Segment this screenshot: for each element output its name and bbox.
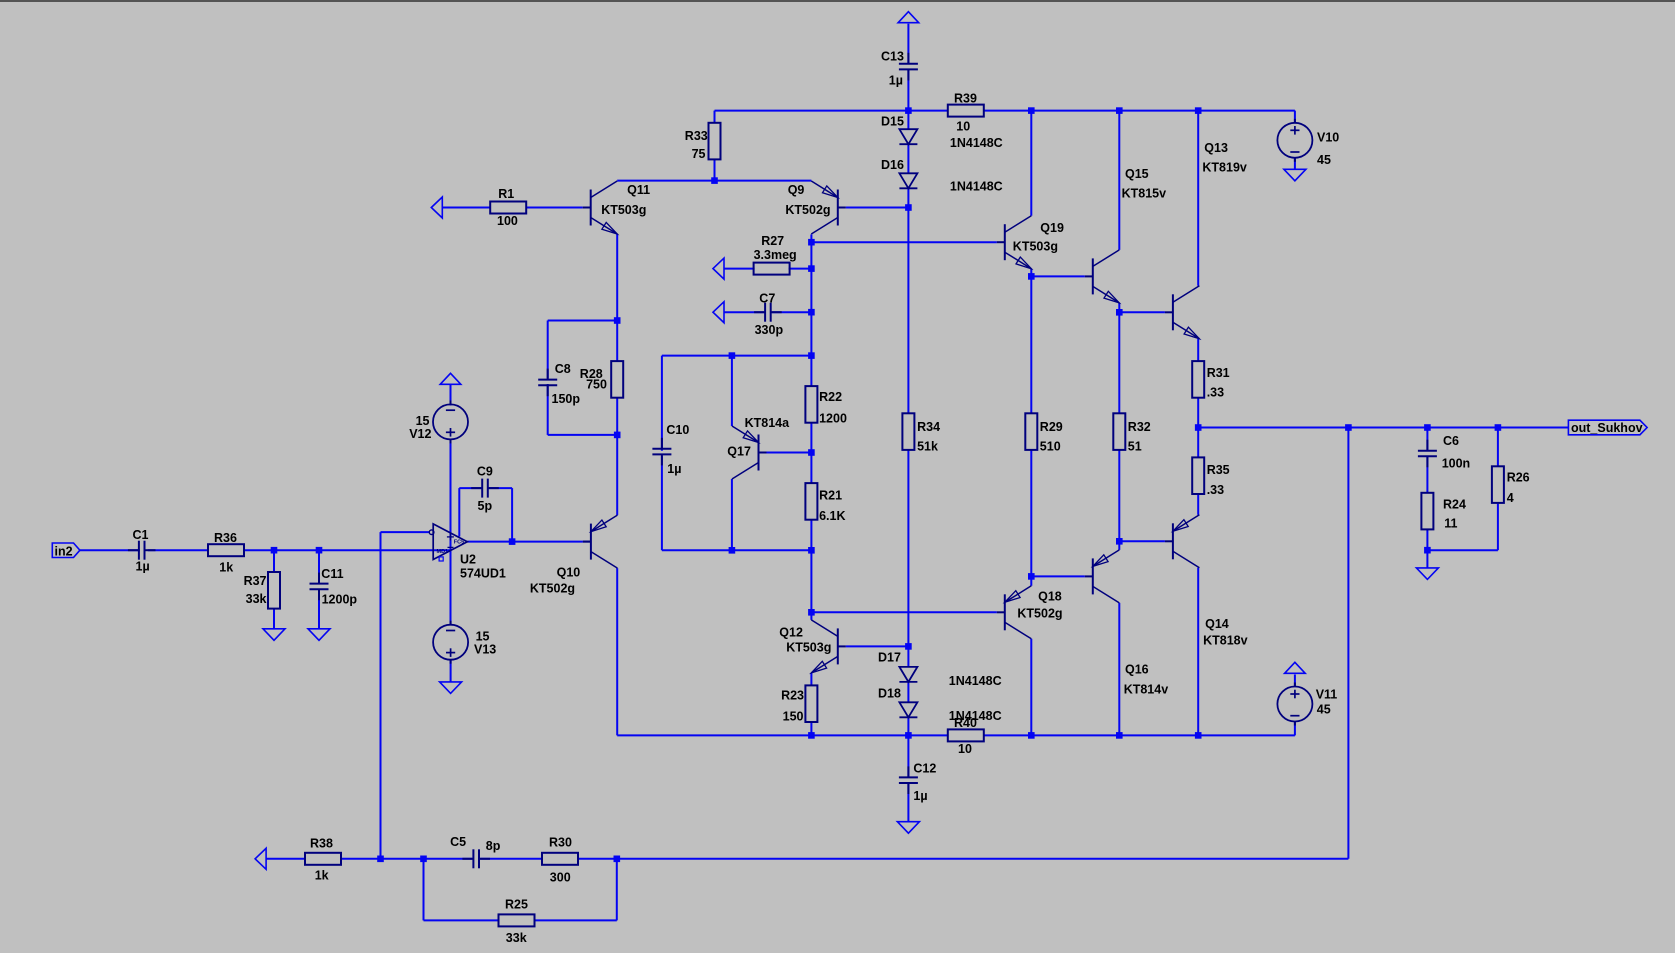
- svg-text:Q11: Q11: [627, 183, 650, 197]
- svg-text:1k: 1k: [315, 868, 329, 882]
- svg-text:3.3meg: 3.3meg: [754, 248, 797, 262]
- svg-text:KT819v: KT819v: [1202, 160, 1247, 174]
- svg-text:Q13: Q13: [1204, 141, 1228, 155]
- svg-text:33k: 33k: [246, 592, 267, 606]
- svg-text:1k: 1k: [219, 561, 233, 575]
- svg-text:R29: R29: [1040, 420, 1063, 434]
- svg-text:R30: R30: [549, 836, 572, 850]
- svg-text:R23: R23: [781, 689, 804, 703]
- svg-text:R1: R1: [498, 187, 514, 201]
- svg-text:510: 510: [1040, 440, 1061, 454]
- svg-text:KT502g: KT502g: [785, 203, 830, 217]
- svg-text:R25: R25: [505, 898, 528, 912]
- svg-text:150p: 150p: [552, 392, 581, 406]
- svg-text:C9: C9: [477, 464, 493, 478]
- svg-text:C10: C10: [666, 423, 689, 437]
- svg-text:5p: 5p: [478, 499, 493, 513]
- svg-text:Q10: Q10: [557, 565, 581, 579]
- svg-text:45: 45: [1317, 153, 1331, 167]
- svg-text:R21: R21: [819, 488, 842, 502]
- svg-text:KT818v: KT818v: [1203, 634, 1248, 648]
- svg-text:V10: V10: [1317, 131, 1339, 145]
- svg-text:R32: R32: [1128, 420, 1151, 434]
- svg-text:R35: R35: [1207, 463, 1230, 477]
- svg-text:Q19: Q19: [1040, 221, 1064, 235]
- svg-text:R24: R24: [1443, 498, 1466, 512]
- svg-text:D16: D16: [881, 158, 904, 172]
- svg-text:KT502g: KT502g: [1017, 606, 1062, 620]
- svg-text:R39: R39: [954, 92, 977, 106]
- svg-text:8p: 8p: [486, 839, 501, 853]
- svg-text:750: 750: [586, 378, 607, 392]
- svg-text:out_Sukhov: out_Sukhov: [1571, 421, 1643, 435]
- svg-text:10: 10: [956, 119, 970, 133]
- svg-text:150: 150: [783, 710, 804, 724]
- svg-text:51k: 51k: [917, 440, 938, 454]
- svg-text:300: 300: [550, 871, 571, 885]
- svg-text:Q16: Q16: [1125, 663, 1149, 677]
- svg-text:in2: in2: [55, 544, 73, 558]
- svg-text:330p: 330p: [755, 323, 784, 337]
- svg-text:1µ: 1µ: [667, 462, 681, 476]
- svg-text:R33: R33: [685, 129, 708, 143]
- svg-text:.33: .33: [1207, 483, 1224, 497]
- svg-text:R40: R40: [954, 716, 977, 730]
- svg-text:75: 75: [692, 147, 706, 161]
- svg-text:KT814a: KT814a: [745, 416, 791, 430]
- svg-text:Q18: Q18: [1038, 590, 1062, 604]
- svg-text:1200: 1200: [819, 412, 847, 426]
- svg-text:100: 100: [497, 214, 518, 228]
- svg-text:45: 45: [1317, 702, 1331, 716]
- svg-text:R31: R31: [1207, 366, 1230, 380]
- svg-text:1N4148C: 1N4148C: [949, 674, 1002, 688]
- svg-text:51: 51: [1128, 440, 1142, 454]
- svg-text:C7: C7: [759, 291, 775, 305]
- svg-text:KT815v: KT815v: [1122, 187, 1167, 201]
- svg-text:R27: R27: [761, 234, 784, 248]
- svg-text:MD1: MD1: [437, 549, 449, 555]
- svg-text:15: 15: [476, 629, 490, 643]
- svg-text:11: 11: [1444, 516, 1457, 530]
- svg-text:KT814v: KT814v: [1124, 683, 1169, 697]
- svg-text:R26: R26: [1507, 471, 1530, 485]
- svg-text:C11: C11: [321, 567, 343, 581]
- svg-text:R22: R22: [819, 390, 842, 404]
- svg-text:KT503g: KT503g: [601, 203, 646, 217]
- svg-text:C5: C5: [450, 835, 466, 849]
- svg-text:R38: R38: [310, 836, 333, 850]
- svg-text:1N4148C: 1N4148C: [950, 180, 1003, 194]
- svg-text:C12: C12: [913, 762, 936, 776]
- svg-text:R34: R34: [917, 420, 940, 434]
- svg-text:U2: U2: [460, 553, 476, 567]
- svg-text:1µ: 1µ: [913, 789, 927, 803]
- svg-text:Q9: Q9: [788, 183, 805, 197]
- svg-text:D18: D18: [878, 687, 901, 701]
- svg-text:33k: 33k: [506, 931, 527, 945]
- svg-text:KT503g: KT503g: [1013, 240, 1058, 254]
- svg-text:.33: .33: [1207, 386, 1224, 400]
- svg-text:Q15: Q15: [1125, 167, 1149, 181]
- svg-text:4: 4: [1507, 491, 1514, 505]
- svg-text:C8: C8: [555, 362, 571, 376]
- svg-text:D17: D17: [878, 651, 901, 665]
- svg-text:1µ: 1µ: [136, 560, 150, 574]
- svg-text:V12: V12: [409, 427, 431, 441]
- svg-text:C6: C6: [1443, 434, 1459, 448]
- svg-text:FC5: FC5: [454, 540, 464, 546]
- svg-text:C13: C13: [881, 49, 904, 63]
- svg-text:V11: V11: [1316, 688, 1338, 702]
- svg-text:KT502g: KT502g: [530, 581, 575, 595]
- svg-text:V13: V13: [474, 643, 496, 657]
- svg-text:6.1K: 6.1K: [819, 509, 845, 523]
- svg-text:15: 15: [416, 414, 430, 428]
- svg-text:Q14: Q14: [1205, 617, 1229, 631]
- svg-text:C1: C1: [133, 528, 149, 542]
- svg-text:100n: 100n: [1442, 457, 1471, 471]
- svg-text:Q17: Q17: [727, 445, 751, 459]
- svg-text:R37: R37: [244, 574, 267, 588]
- svg-text:1N4148C: 1N4148C: [950, 136, 1003, 150]
- svg-text:574UD1: 574UD1: [460, 566, 506, 580]
- svg-text:D15: D15: [881, 115, 904, 129]
- svg-text:1µ: 1µ: [889, 74, 903, 88]
- svg-text:Q12: Q12: [779, 626, 803, 640]
- svg-text:1200p: 1200p: [322, 592, 358, 606]
- svg-text:R36: R36: [214, 531, 237, 545]
- svg-text:10: 10: [958, 742, 972, 756]
- svg-text:KT503g: KT503g: [786, 641, 831, 655]
